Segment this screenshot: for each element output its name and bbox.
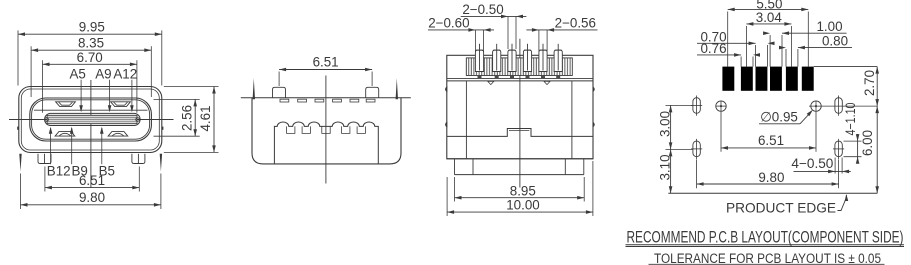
dim 8.95 <box>455 197 585 199</box>
dim 6.70 extension lines <box>42 60 44 113</box>
dim 4-0.50 extension lines <box>834 158 836 174</box>
view3 side nub left lower <box>446 122 447 127</box>
svg-text:RECOMMEND P.C.B LAYOUT(COMPONE: RECOMMEND P.C.B LAYOUT(COMPONENT SIDE) <box>627 228 904 246</box>
svg-text:3.04: 3.04 <box>756 10 783 25</box>
svg-text:0.80: 0.80 <box>822 34 848 49</box>
dim 4-1.10 <box>857 134 859 164</box>
dim 3.10 <box>670 149 672 193</box>
view3 body outline <box>447 55 593 159</box>
view2 body outline <box>252 98 401 164</box>
view1 top contact bump right <box>111 102 131 107</box>
svg-text:6.51: 6.51 <box>79 173 105 188</box>
svg-text:TOLERANCE FOR PCB LAYOUT IS ±: TOLERANCE FOR PCB LAYOUT IS ± 0.05 <box>654 251 881 265</box>
dim 4.61 <box>213 87 215 153</box>
dim 6.51 view1 <box>45 187 139 189</box>
dim 10.00 extension lines <box>446 177 448 216</box>
svg-text:2.70: 2.70 <box>862 70 877 96</box>
view2 insulator notches <box>287 126 295 133</box>
view1 solder foot left <box>38 154 51 164</box>
dim 4-1.10 extension lines <box>844 140 862 142</box>
svg-text:9.80: 9.80 <box>758 170 784 185</box>
view1 front view centerline horizontal <box>9 119 174 121</box>
dim 2-0.50 <box>461 15 527 17</box>
svg-text:A5: A5 <box>70 67 86 82</box>
view1 solder foot right <box>132 154 145 164</box>
view2 shell leg left <box>253 78 255 99</box>
dim 0.80 <box>798 47 852 49</box>
svg-text:A12: A12 <box>113 67 137 82</box>
svg-text:A9: A9 <box>95 67 111 82</box>
view3 side nub right upper <box>593 87 594 92</box>
dim 2-0.60 extension lines <box>474 30 476 52</box>
view3 base line <box>447 158 593 160</box>
dim 2-0.60 <box>428 29 494 31</box>
view1 shelf line above tongue <box>34 109 148 111</box>
dim 0.76 extension lines <box>740 57 742 67</box>
dim 6.51 extension lines pcb <box>720 112 722 152</box>
view1 tongue end circle right <box>136 118 140 122</box>
view3 pin wires <box>479 44 481 71</box>
dim 0.70 extension lines <box>755 45 757 67</box>
svg-text:B12: B12 <box>47 163 71 178</box>
pcb hole row line <box>809 105 877 107</box>
svg-text:0.76: 0.76 <box>700 41 726 56</box>
view2 contact dashes <box>280 99 289 102</box>
svg-text:6.00: 6.00 <box>860 130 875 156</box>
view3 side nub left upper <box>446 87 447 92</box>
view3 inner wall right <box>571 81 573 159</box>
svg-text:6.51: 6.51 <box>758 133 784 148</box>
dim 6.70 <box>43 63 137 65</box>
view1 side retention tick left <box>17 127 19 130</box>
pcb pads <box>722 67 734 91</box>
dim 6.51 view2 <box>279 69 372 71</box>
pcb oval pad top-right <box>835 98 842 114</box>
pcb hole right <box>815 105 817 107</box>
view3 pin tips below band <box>478 76 482 79</box>
view1 shell leg right <box>160 154 162 172</box>
pcb hole left <box>720 105 722 107</box>
svg-text:9.80: 9.80 <box>79 190 105 205</box>
svg-text:1.00: 1.00 <box>816 19 842 34</box>
svg-text:9.95: 9.95 <box>79 20 105 35</box>
dim 3.04 extension lines <box>745 26 747 67</box>
svg-text:PRODUCT EDGE: PRODUCT EDGE <box>726 201 836 216</box>
dim 0.76 <box>697 54 741 56</box>
svg-text:10.00: 10.00 <box>506 198 540 213</box>
view1 outer shell <box>19 87 162 153</box>
pcb oval pad top-left <box>693 98 700 114</box>
svg-text:6.51: 6.51 <box>313 54 339 69</box>
view1 side retention tick right <box>162 127 164 130</box>
dim 9.80 extension lines pcb <box>696 160 698 189</box>
dim 9.95 <box>18 33 162 35</box>
pcb product edge line <box>668 192 877 194</box>
view2 top edge line <box>241 97 411 99</box>
dim 4-0.50 <box>794 170 851 172</box>
dim 6.51 extension lines view2 <box>278 72 280 87</box>
dim 4.61 extension lines <box>164 86 219 88</box>
dim 10.00 <box>447 211 593 213</box>
view1 bottom contact bump right <box>108 132 128 137</box>
dim 0.70 <box>697 42 756 44</box>
dim 2-0.56 <box>526 29 597 31</box>
dim 3.00 extension lines <box>666 104 693 106</box>
dim 5.50 <box>728 8 809 10</box>
dim 8.95 extension lines <box>454 177 456 202</box>
svg-text:4−1.10: 4−1.10 <box>843 103 858 136</box>
svg-text:6.70: 6.70 <box>77 50 103 65</box>
svg-text:2.56: 2.56 <box>180 105 195 131</box>
dim 9.80 <box>21 204 161 206</box>
view3 pin slots <box>475 50 483 71</box>
dim 3.00 <box>670 105 672 149</box>
view2 insulator scalloped outline <box>274 122 378 164</box>
dim 5.50 extension lines <box>727 12 729 67</box>
dim 0.80 extension lines <box>785 49 787 67</box>
view1 bottom contact bump left <box>55 132 75 137</box>
dim 2.70 <box>876 67 878 107</box>
view1 shell leg left <box>19 154 21 172</box>
view2 shell leg right <box>396 78 398 99</box>
svg-text:8.35: 8.35 <box>78 36 104 51</box>
view1 tongue contact strip <box>47 115 137 123</box>
dim 2.56 <box>194 99 196 136</box>
svg-text:2−0.56: 2−0.56 <box>555 16 596 31</box>
svg-text:∅0.95: ∅0.95 <box>760 110 798 125</box>
view3 mid line with center notch <box>447 129 593 137</box>
dim 8.35 <box>31 49 151 51</box>
view3 centerline vertical <box>519 39 521 188</box>
dim 8.35 extension lines <box>30 46 32 97</box>
dim 6.51 extension lines view1 <box>44 167 46 192</box>
pcb oval pad bottom-right <box>835 141 842 157</box>
dim 2-0.50 extension lines <box>507 16 509 49</box>
svg-text:2−0.60: 2−0.60 <box>428 16 469 31</box>
dim 9.80 extension lines <box>20 174 22 210</box>
pcb oval pad bottom-left <box>693 141 700 157</box>
dim 9.95 extension lines <box>17 30 19 85</box>
view2 post right <box>366 87 379 98</box>
view2 post left <box>273 87 286 98</box>
dim 2-0.56 extension lines <box>538 30 540 52</box>
dim 2.56 extension lines <box>154 98 200 100</box>
svg-text:8.95: 8.95 <box>510 183 536 198</box>
view3 hatched contact band <box>466 58 572 76</box>
view1 tongue <box>45 113 141 125</box>
svg-text:3.00: 3.00 <box>658 111 673 137</box>
view3 shoulder lines <box>447 77 593 79</box>
pcb top reference line <box>814 66 878 68</box>
view1 opening inner <box>32 100 150 139</box>
view1 tongue end circle left <box>45 118 49 122</box>
dim 1.00 <box>782 32 847 34</box>
view2 centerline vertical <box>325 76 327 184</box>
view1 opening outer <box>30 98 152 141</box>
dim 6.00 <box>876 106 878 193</box>
svg-text:4.61: 4.61 <box>198 105 213 131</box>
view1 top contact bump left <box>56 102 76 107</box>
dim 1.00 extension lines <box>769 35 771 67</box>
view3 side nub right lower <box>593 122 594 127</box>
svg-text:4−0.50: 4−0.50 <box>791 156 833 171</box>
dim 6.51 pcb <box>721 147 816 149</box>
view3 weld triangle right <box>544 81 550 84</box>
dim 3.04 <box>746 23 791 25</box>
view1 shell inner wall <box>21 89 159 150</box>
svg-text:3.10: 3.10 <box>658 154 673 180</box>
dim 9.80 pcb <box>697 183 839 185</box>
view1 front view centerline vertical <box>90 80 92 188</box>
view3 inner wall left <box>465 81 467 159</box>
view3 weld triangle left <box>488 81 494 84</box>
view3 lower block <box>454 159 456 175</box>
